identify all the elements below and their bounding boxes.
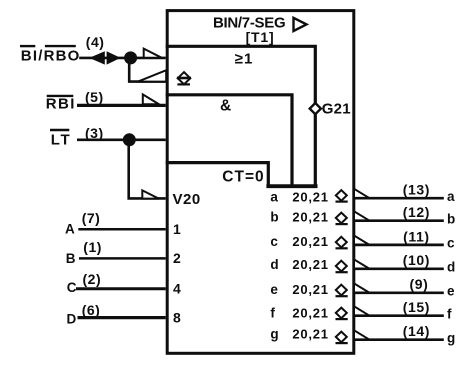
polarity triangle RBO output bbox=[138, 70, 166, 81]
polarity triangle output d bbox=[354, 259, 370, 268]
svg-text:≥1: ≥1 bbox=[235, 50, 254, 67]
wire output a bbox=[354, 197, 444, 200]
svg-text:e: e bbox=[270, 282, 278, 297]
polarity triangle output f bbox=[354, 306, 370, 315]
svg-text:(11): (11) bbox=[403, 228, 430, 244]
open-collector diamond (c) bbox=[336, 237, 348, 249]
polarity triangle output c bbox=[354, 236, 370, 245]
svg-text:8: 8 bbox=[173, 309, 181, 325]
AND block top edge and right edge wire bbox=[166, 95, 292, 188]
svg-text:g: g bbox=[447, 331, 455, 346]
wire A bbox=[78, 228, 165, 231]
polarity triangle output a bbox=[354, 189, 370, 198]
polarity triangle LT branch bbox=[142, 190, 159, 198]
svg-text:(2): (2) bbox=[83, 271, 102, 287]
svg-text:G21: G21 bbox=[322, 101, 351, 118]
junction dot LT bbox=[123, 133, 136, 146]
svg-text:4: 4 bbox=[173, 280, 181, 296]
svg-text:BI/RBO: BI/RBO bbox=[21, 48, 81, 65]
polarity triangle output b bbox=[354, 211, 370, 220]
svg-text:(15): (15) bbox=[403, 299, 430, 315]
wire LT branch to V20 bbox=[129, 140, 166, 199]
polarity triangle output e bbox=[354, 283, 370, 292]
CT=0 block step edge bbox=[166, 163, 269, 188]
polarity triangle output g bbox=[354, 330, 370, 339]
svg-text:(4): (4) bbox=[86, 34, 105, 50]
svg-text:e: e bbox=[447, 284, 455, 299]
open-collector diamond (b) bbox=[336, 213, 348, 225]
svg-text:LT: LT bbox=[51, 131, 72, 148]
wire output b bbox=[354, 219, 444, 222]
svg-text:b: b bbox=[447, 212, 455, 227]
svg-text:D: D bbox=[67, 311, 77, 326]
svg-text:20,21: 20,21 bbox=[292, 257, 328, 272]
svg-text:[T1]: [T1] bbox=[246, 29, 275, 45]
svg-text:(14): (14) bbox=[403, 323, 430, 339]
svg-text:20,21: 20,21 bbox=[292, 305, 328, 320]
svg-text:(13): (13) bbox=[403, 182, 430, 198]
wire output d bbox=[354, 267, 444, 270]
overline RBO bbox=[45, 45, 76, 47]
polarity triangle BI input bbox=[144, 49, 162, 58]
wire RBO branch bbox=[129, 58, 166, 82]
svg-text:20,21: 20,21 bbox=[292, 209, 328, 224]
svg-text:(1): (1) bbox=[83, 239, 102, 255]
internal bus joining wire bbox=[266, 184, 317, 188]
wire LT bbox=[77, 139, 166, 142]
svg-text:C: C bbox=[67, 280, 77, 295]
svg-text:RBI: RBI bbox=[46, 96, 76, 113]
svg-text:20,21: 20,21 bbox=[292, 190, 328, 205]
open-collector diamond (e) bbox=[336, 285, 348, 297]
svg-text:20,21: 20,21 bbox=[292, 327, 328, 342]
svg-text:b: b bbox=[270, 209, 278, 224]
OR block top edge and right edge wire bbox=[166, 46, 316, 188]
junction dot BI/RBO bbox=[124, 51, 137, 64]
wire output g bbox=[354, 338, 444, 341]
G21 node diamond bbox=[310, 103, 321, 114]
open-collector diamond (g) bbox=[336, 332, 348, 344]
wire D bbox=[78, 316, 166, 319]
svg-text:d: d bbox=[270, 257, 278, 272]
svg-text:(7): (7) bbox=[82, 210, 101, 226]
wire output e bbox=[354, 291, 444, 294]
wire output c bbox=[354, 244, 444, 247]
wire output f bbox=[354, 314, 444, 317]
overline BI bbox=[20, 45, 35, 47]
svg-text:CT=0: CT=0 bbox=[222, 168, 264, 185]
svg-text:f: f bbox=[447, 307, 452, 322]
svg-text:20,21: 20,21 bbox=[292, 234, 328, 249]
svg-text:(5): (5) bbox=[85, 89, 104, 105]
svg-text:20,21: 20,21 bbox=[292, 282, 328, 297]
polarity triangle RBI bbox=[143, 94, 159, 104]
svg-text:c: c bbox=[447, 236, 455, 251]
svg-text:(10): (10) bbox=[403, 252, 430, 268]
svg-text:c: c bbox=[270, 234, 278, 249]
bidirectional arrow left bbox=[89, 51, 105, 64]
svg-text:g: g bbox=[270, 327, 278, 342]
svg-text:(6): (6) bbox=[82, 302, 101, 318]
wire B bbox=[79, 257, 166, 260]
IC outline U1 bbox=[167, 11, 354, 354]
overline RBI bbox=[47, 95, 74, 97]
svg-text:d: d bbox=[447, 260, 455, 275]
open-collector diamond (d) bbox=[336, 261, 348, 273]
wire RBI bbox=[77, 104, 166, 107]
svg-text:(12): (12) bbox=[403, 204, 430, 220]
svg-text:B: B bbox=[66, 251, 76, 266]
svg-text:2: 2 bbox=[173, 250, 181, 266]
svg-text:a: a bbox=[447, 189, 455, 204]
overline LT bbox=[50, 129, 69, 131]
open-collector diamond (f) bbox=[336, 308, 348, 320]
open-collector diamond (a) bbox=[336, 190, 348, 202]
svg-text:(9): (9) bbox=[410, 276, 429, 292]
wire BI/RBO bbox=[79, 57, 166, 60]
svg-text:&: & bbox=[220, 98, 231, 115]
open-collector indicator on RBO (diamond with bar and underline) bbox=[177, 72, 191, 84]
svg-text:(3): (3) bbox=[85, 125, 104, 141]
svg-text:f: f bbox=[270, 305, 275, 320]
bidirectional arrow right bbox=[107, 51, 121, 64]
svg-text:V20: V20 bbox=[173, 191, 201, 208]
svg-text:a: a bbox=[270, 190, 278, 205]
svg-text:A: A bbox=[65, 221, 75, 236]
header amplifier triangle bbox=[294, 18, 307, 31]
wire C bbox=[76, 287, 166, 290]
svg-text:1: 1 bbox=[173, 221, 181, 237]
